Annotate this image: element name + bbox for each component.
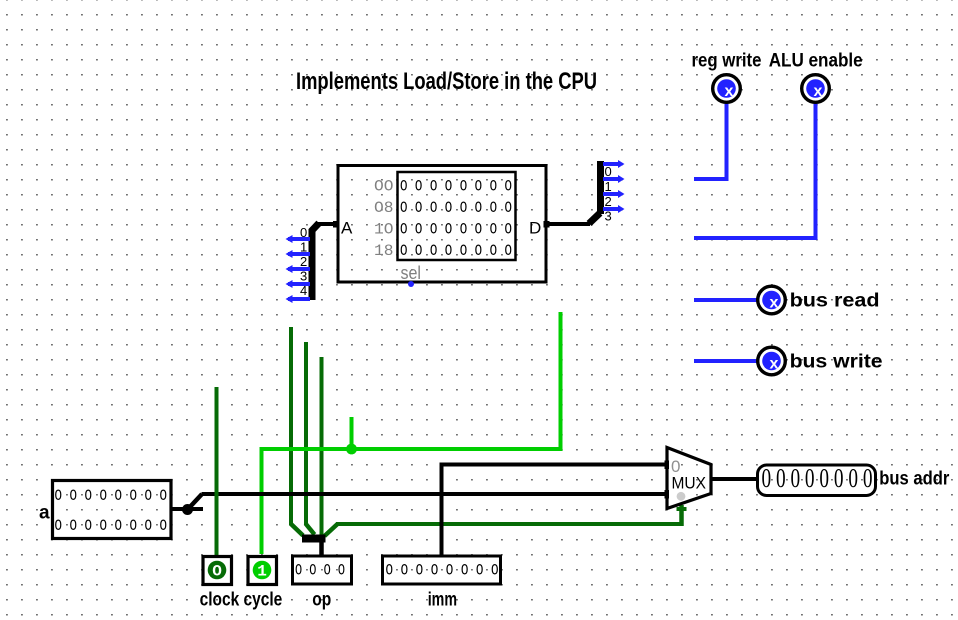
mux input tick bottom	[665, 490, 670, 499]
splitter a dot	[182, 504, 193, 515]
splitter a leg low	[188, 507, 203, 511]
op splitter spine	[302, 535, 326, 543]
RAM address column	[374, 178, 394, 261]
wire ALU enable vertical	[814, 102, 818, 240]
wire op bit0 diagonal	[291, 524, 304, 536]
svg-text:1: 1	[605, 179, 612, 194]
svg-text:x: x	[770, 356, 779, 373]
svg-text:3: 3	[605, 209, 612, 224]
splitter right leg 0	[603, 160, 625, 168]
RAM box	[338, 166, 546, 283]
svg-text:bus read: bus read	[790, 290, 880, 311]
wire op bit2 vertical	[320, 357, 324, 537]
wire A input	[318, 222, 338, 226]
wire reg write vertical	[725, 102, 729, 181]
pin bus read	[758, 286, 786, 314]
mux MUX1	[667, 448, 711, 509]
svg-text:2: 2	[605, 194, 612, 209]
svg-text:O O O O: O O O O	[295, 562, 345, 580]
svg-text:O8: O8	[374, 199, 394, 217]
pin bus write	[758, 347, 786, 375]
wire op bit0 vertical	[289, 327, 293, 525]
wire mux select horizontal	[336, 522, 682, 526]
svg-text:clock cycle: clock cycle	[200, 589, 283, 610]
svg-text:ALU enable: ALU enable	[769, 51, 863, 72]
svg-text:Implements Load/Store in the C: Implements Load/Store in the CPU	[296, 68, 597, 95]
splitter a diagonal	[188, 494, 202, 509]
wire imm to mux horizontal	[440, 463, 669, 467]
svg-text:3: 3	[300, 269, 307, 284]
svg-text:O O O O O O O O: O O O O O O O O	[386, 562, 499, 580]
op splitter root stub	[319, 540, 324, 556]
splitter right spine	[597, 161, 604, 214]
svg-text:O O O O O O O O: O O O O O O O O	[55, 487, 168, 505]
svg-text:O O O O O O O O: O O O O O O O O	[400, 178, 512, 196]
svg-text:x: x	[814, 83, 823, 100]
splitter right leg 1	[603, 175, 625, 183]
wire a to mux horizontal	[202, 492, 669, 496]
wire D output	[548, 222, 590, 226]
node D pin dot	[544, 221, 550, 228]
svg-text:MUX: MUX	[672, 474, 707, 493]
splitter left leg 3	[286, 280, 311, 288]
RAM inner box	[398, 172, 516, 260]
pin cycle box	[248, 557, 277, 585]
RAM sel pin dot	[408, 281, 414, 287]
splitter left spine	[309, 229, 316, 300]
splitter right leg 3	[603, 205, 625, 213]
mux input tick top	[665, 461, 670, 470]
svg-text:O O O O O O O O: O O O O O O O O	[400, 242, 512, 260]
wire one vertical right	[559, 312, 563, 451]
svg-text:O O O O O O O O: O O O O O O O O	[400, 199, 512, 217]
svg-text:2: 2	[300, 254, 307, 269]
wire mux select nub	[677, 507, 687, 511]
pin cycle circle	[253, 561, 272, 581]
wire op bit3 diagonal	[325, 524, 339, 537]
pin clock box	[203, 557, 232, 585]
pin reg write	[713, 75, 741, 103]
wire op bit1 vertical	[304, 342, 308, 525]
svg-text:0: 0	[605, 164, 612, 179]
splitter left leg 2	[286, 265, 311, 273]
wire reg write horizontal	[694, 177, 729, 181]
wire one vertical from pin 1	[260, 447, 264, 554]
svg-text:18: 18	[374, 242, 394, 260]
wire mux output	[711, 477, 759, 481]
svg-text:OO: OO	[374, 178, 394, 196]
wire clock vertical	[215, 387, 219, 555]
splitter right diagonal	[589, 213, 600, 224]
svg-text:1: 1	[257, 563, 267, 581]
wire bus read	[694, 298, 758, 302]
splitter left labels	[300, 225, 307, 298]
wire one stub up	[350, 417, 354, 451]
svg-text:O O O O O O O O: O O O O O O O O	[400, 221, 512, 239]
wire one horizontal	[260, 447, 563, 451]
svg-text:0 0 0 0 0 0 0 0: 0 0 0 0 0 0 0 0	[762, 463, 873, 493]
wire op bit1 diagonal	[306, 524, 315, 535]
svg-text:D: D	[529, 219, 541, 238]
splitter right leg 2	[603, 190, 625, 198]
pin imm box	[383, 556, 501, 584]
splitter left leg 1	[286, 250, 311, 258]
svg-text:A: A	[341, 219, 353, 238]
svg-text:a: a	[39, 503, 50, 524]
wire register a output	[170, 507, 189, 511]
svg-text:sel: sel	[401, 263, 422, 283]
svg-text:x: x	[725, 83, 734, 100]
svg-text:O O O O O O O O: O O O O O O O O	[55, 517, 168, 535]
splitter left diagonal	[311, 223, 319, 232]
svg-text:1O: 1O	[374, 221, 394, 239]
junction dot green	[346, 444, 357, 455]
svg-text:imm: imm	[428, 589, 457, 610]
splitter left leg 0	[286, 235, 311, 243]
RAM data rows	[400, 178, 512, 261]
wire bus write	[694, 359, 758, 363]
svg-text:op: op	[312, 589, 331, 610]
svg-text:0: 0	[300, 225, 307, 240]
wire mux select vertical	[679, 505, 684, 526]
pin ALU enable	[802, 75, 830, 103]
probe bus addr box	[758, 465, 876, 496]
splitter right labels	[605, 164, 612, 224]
svg-text:1: 1	[300, 240, 307, 255]
pin op box	[293, 556, 352, 584]
register a box	[53, 481, 172, 539]
svg-text:bus addr: bus addr	[879, 469, 950, 490]
svg-text:O: O	[212, 563, 222, 581]
wire imm vertical	[440, 463, 444, 557]
svg-text:4: 4	[300, 283, 307, 298]
svg-text:reg write: reg write	[692, 51, 762, 72]
svg-text:x: x	[770, 295, 779, 312]
node A pin dot	[333, 221, 340, 228]
splitter left leg 4	[286, 295, 311, 303]
svg-text:bus write: bus write	[790, 352, 883, 373]
wire ALU enable horizontal	[694, 236, 818, 240]
pin clock circle	[208, 561, 227, 581]
